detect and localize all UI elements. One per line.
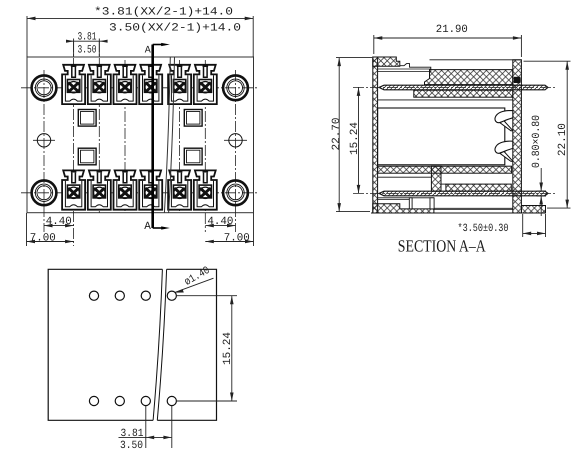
svg-text:*3.50±0.30: *3.50±0.30 <box>458 223 509 235</box>
row centerline top <box>21 87 259 89</box>
svg-text:15.24: 15.24 <box>349 122 361 155</box>
top rim chamfer profile <box>400 64 431 73</box>
pcb hole B3 <box>141 396 150 405</box>
pin centerline top <box>353 86 556 88</box>
break lines front view <box>164 57 170 213</box>
break line right <box>157 269 166 420</box>
terminal contact 5 top row <box>168 65 191 104</box>
pillar <box>431 166 441 191</box>
lower cavity lines <box>378 176 432 178</box>
relief square lower right <box>184 148 202 165</box>
terminal contact 1 top row <box>62 65 85 104</box>
mid circle left <box>37 134 50 147</box>
column centerline right holes <box>235 70 237 232</box>
pin holder posts below bottom pin <box>409 198 412 209</box>
bottom latch lines <box>378 198 409 200</box>
terminal contact 9 bottom row <box>114 170 137 209</box>
pcb hole B4 <box>167 396 176 405</box>
band below cavity <box>378 166 512 173</box>
thin bottom double line <box>434 207 513 209</box>
mounting hole bottom-left <box>32 180 57 205</box>
pcb hole A4 <box>167 291 176 300</box>
mid circle crosshair left <box>33 139 55 141</box>
svg-text:3.50: 3.50 <box>120 440 143 452</box>
right flange bottom <box>521 206 545 214</box>
svg-text:A: A <box>145 46 151 57</box>
terminal contact 11 bottom row <box>168 170 191 209</box>
bottom rim hatched <box>373 204 434 213</box>
top band above pin <box>425 70 513 85</box>
svg-text:A: A <box>144 221 151 233</box>
pcb right part <box>157 269 216 420</box>
svg-text:*3.81(XX/2-1)+14.0: *3.81(XX/2-1)+14.0 <box>94 7 233 19</box>
svg-text:3.50: 3.50 <box>78 44 97 56</box>
bottom edge line <box>371 212 546 214</box>
mounting hole bottom-right <box>223 180 248 205</box>
terminal contact 10 bottom row <box>139 170 162 209</box>
mounting hole top-right <box>223 75 248 100</box>
bottom pin <box>379 191 548 196</box>
latch dot <box>514 77 521 83</box>
spring contact top <box>495 111 513 131</box>
mid circle crosshair right <box>224 139 247 141</box>
row centerline bottom <box>21 192 259 194</box>
terminal contact 8 bottom row <box>88 170 111 209</box>
svg-text:21.90: 21.90 <box>436 24 468 36</box>
pcb left part <box>48 269 162 420</box>
terminal contact 3 top row <box>114 65 137 104</box>
terminal contact 12 bottom row <box>194 170 217 209</box>
bottom band right <box>446 184 511 191</box>
mounting hole top-left <box>32 75 57 100</box>
relief square lower left <box>78 148 96 165</box>
left wall hatched <box>373 57 378 213</box>
svg-text:0.80×0.80: 0.80×0.80 <box>531 115 543 168</box>
terminal contact 4 top row <box>139 65 162 104</box>
housing outline <box>27 57 254 213</box>
break line left <box>153 269 162 420</box>
svg-text:22.70: 22.70 <box>331 118 343 151</box>
pcb hole A2 <box>115 291 124 300</box>
terminal contact 6 top row <box>194 65 217 104</box>
band below top pin <box>414 90 513 97</box>
spring contact bottom <box>495 141 513 161</box>
terminal contact 2 top row <box>88 65 111 104</box>
terminal centerlines <box>73 41 75 246</box>
svg-text:3.50(XX/2-1)+14.0: 3.50(XX/2-1)+14.0 <box>109 22 241 34</box>
pcb hole A3 <box>141 291 150 300</box>
mid circle right <box>229 134 242 147</box>
svg-text:3.81: 3.81 <box>121 428 144 440</box>
right wall <box>513 60 522 213</box>
section cutting line A-A <box>151 45 154 229</box>
relief square upper left <box>78 110 96 127</box>
pcb hole B2 <box>115 396 124 405</box>
latch lines top <box>378 68 431 70</box>
column centerline left holes <box>43 70 45 232</box>
cavity box <box>378 108 505 165</box>
cavity upper line <box>378 99 513 101</box>
pcb hole A1 <box>89 291 98 300</box>
relief square upper right <box>184 110 202 127</box>
top pin <box>379 85 548 90</box>
pcb hole B1 <box>89 396 98 405</box>
pin centerline bottom <box>353 192 556 194</box>
terminal contact 7 bottom row <box>62 170 85 209</box>
svg-text:SECTION A–A: SECTION A–A <box>398 237 487 256</box>
svg-text:3.81: 3.81 <box>78 32 97 44</box>
top line right part <box>430 59 522 61</box>
top rim hatched <box>373 57 400 66</box>
